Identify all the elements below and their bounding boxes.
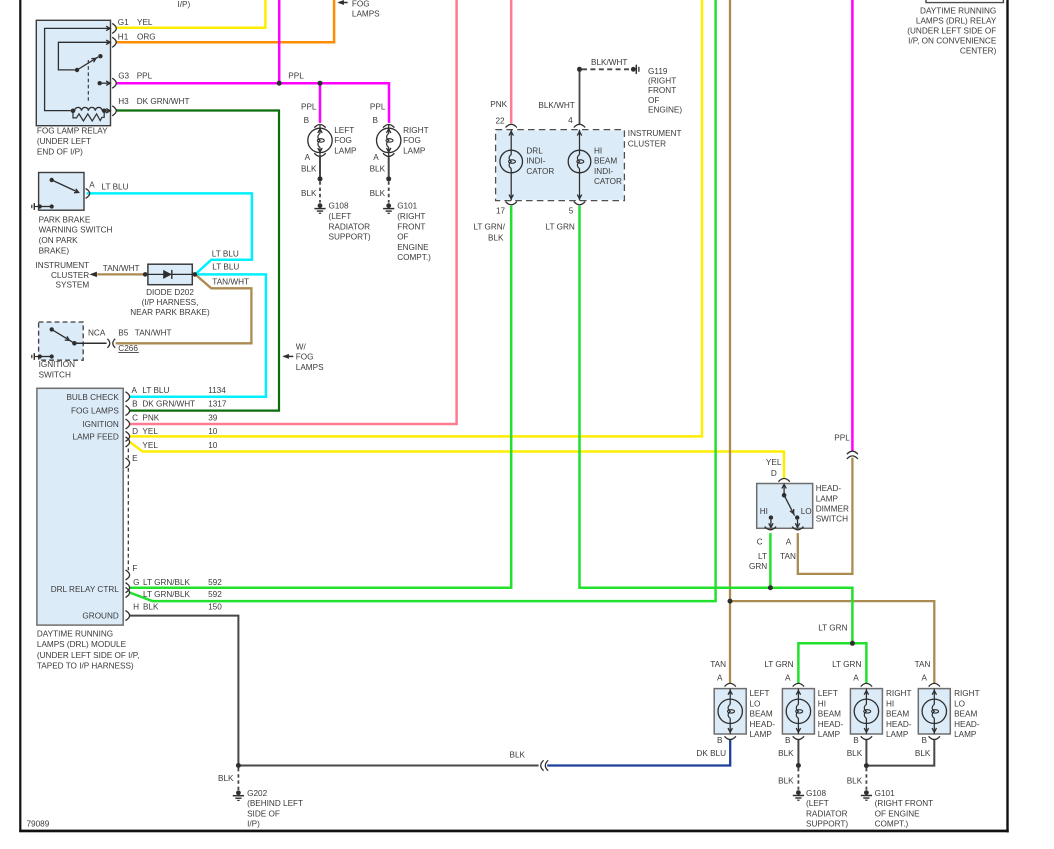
svg-text:BULB CHECK: BULB CHECK (66, 393, 119, 402)
svg-text:H1: H1 (118, 33, 129, 42)
svg-text:YEL: YEL (766, 458, 782, 467)
svg-text:DK GRN/WHT: DK GRN/WHT (142, 400, 195, 409)
svg-text:FOG LAMPS: FOG LAMPS (71, 407, 119, 416)
svg-text:A: A (373, 153, 379, 162)
svg-text:NCA: NCA (88, 329, 106, 338)
svg-text:(UNDER LEFT SIDE OF: (UNDER LEFT SIDE OF (907, 27, 996, 36)
svg-text:B: B (373, 116, 379, 125)
svg-text:LO: LO (801, 507, 812, 516)
svg-text:B: B (922, 736, 928, 745)
svg-text:OF: OF (397, 233, 408, 242)
svg-text:FOG: FOG (296, 353, 314, 362)
svg-text:ORG: ORG (137, 33, 156, 42)
svg-text:1134: 1134 (208, 386, 226, 395)
svg-text:TAN: TAN (710, 660, 726, 669)
svg-text:DIODE D202: DIODE D202 (146, 288, 194, 297)
svg-text:E: E (132, 454, 138, 463)
svg-text:BLK: BLK (510, 751, 526, 760)
svg-text:DAYTIME RUNNING: DAYTIME RUNNING (37, 630, 113, 639)
svg-text:LAMPS (DRL) RELAY: LAMPS (DRL) RELAY (916, 17, 997, 26)
svg-text:TAN/WHT: TAN/WHT (212, 278, 249, 287)
svg-text:DIMMER: DIMMER (816, 505, 849, 514)
svg-text:H: H (133, 602, 139, 611)
svg-text:H3: H3 (118, 97, 129, 106)
svg-text:INDI-: INDI- (526, 157, 545, 166)
svg-text:DAYTIME RUNNING: DAYTIME RUNNING (920, 7, 996, 16)
svg-text:RIGHT: RIGHT (886, 689, 911, 698)
svg-text:SIDE OF: SIDE OF (247, 809, 280, 818)
svg-text:HEAD-: HEAD- (886, 720, 912, 729)
svg-text:592: 592 (208, 590, 222, 599)
svg-text:LAMP: LAMP (750, 730, 773, 739)
svg-text:BLK: BLK (301, 189, 317, 198)
svg-text:TAN/WHT: TAN/WHT (135, 329, 172, 338)
svg-text:A: A (785, 674, 791, 683)
svg-text:PNK: PNK (490, 100, 507, 109)
svg-text:ENGINE): ENGINE) (648, 106, 682, 115)
svg-text:HI: HI (886, 699, 894, 708)
svg-text:FRONT: FRONT (397, 222, 425, 231)
svg-text:TAN/WHT: TAN/WHT (103, 264, 140, 273)
svg-text:NEAR PARK BRAKE): NEAR PARK BRAKE) (130, 308, 210, 317)
svg-text:HI: HI (818, 699, 826, 708)
svg-text:SUPPORT): SUPPORT) (806, 820, 848, 829)
svg-text:PPL: PPL (301, 103, 317, 112)
svg-text:LAMP: LAMP (403, 147, 426, 156)
svg-text:PPL: PPL (288, 71, 304, 80)
svg-text:D: D (132, 427, 138, 436)
svg-text:PNK: PNK (142, 414, 159, 423)
svg-text:LAMPS (DRL) MODULE: LAMPS (DRL) MODULE (37, 640, 127, 649)
svg-text:HI: HI (594, 147, 602, 156)
svg-text:(ON PARK: (ON PARK (39, 236, 79, 245)
svg-text:LAMP: LAMP (818, 730, 841, 739)
svg-text:IGNITION: IGNITION (82, 420, 118, 429)
svg-text:END OF I/P): END OF I/P) (37, 147, 83, 156)
svg-text:C: C (132, 414, 138, 423)
svg-text:C266: C266 (118, 344, 138, 353)
svg-text:5: 5 (569, 206, 574, 215)
svg-text:LT: LT (758, 552, 767, 561)
svg-text:17: 17 (496, 206, 506, 215)
svg-text:LO: LO (750, 699, 761, 708)
svg-text:LAMP: LAMP (954, 730, 977, 739)
svg-text:79089: 79089 (27, 819, 50, 828)
svg-text:D: D (771, 469, 777, 478)
svg-text:BEAM: BEAM (818, 710, 841, 719)
svg-text:10: 10 (208, 427, 218, 436)
svg-text:OF ENGINE: OF ENGINE (875, 809, 921, 818)
svg-text:GRN: GRN (749, 562, 767, 571)
svg-text:LT GRN/BLK: LT GRN/BLK (143, 578, 191, 587)
svg-text:BLK/WHT: BLK/WHT (538, 101, 574, 110)
svg-text:BLK: BLK (370, 189, 386, 198)
svg-text:DK GRN/WHT: DK GRN/WHT (137, 97, 190, 106)
svg-text:INSTRUMENT: INSTRUMENT (628, 129, 682, 138)
svg-text:FOG: FOG (403, 136, 421, 145)
svg-text:LAMP FEED: LAMP FEED (73, 433, 119, 442)
svg-text:LT GRN/BLK: LT GRN/BLK (143, 590, 191, 599)
svg-text:BLK/WHT: BLK/WHT (591, 58, 627, 67)
svg-text:BLK: BLK (218, 774, 234, 783)
svg-text:LT BLU: LT BLU (212, 249, 239, 258)
svg-text:(RIGHT: (RIGHT (648, 77, 676, 86)
svg-text:CLUSTER: CLUSTER (51, 271, 89, 280)
svg-text:HEAD-: HEAD- (816, 484, 842, 493)
svg-text:LT GRN: LT GRN (832, 660, 861, 669)
svg-text:B5: B5 (118, 329, 128, 338)
svg-text:150: 150 (208, 602, 222, 611)
svg-text:CATOR: CATOR (594, 177, 622, 186)
svg-text:INDI-: INDI- (594, 167, 613, 176)
svg-text:(RIGHT: (RIGHT (397, 212, 425, 221)
svg-text:B: B (304, 116, 310, 125)
svg-text:FOG LAMP RELAY: FOG LAMP RELAY (37, 127, 108, 136)
svg-text:TAPED TO I/P HARNESS): TAPED TO I/P HARNESS) (37, 662, 134, 671)
svg-text:(UNDER LEFT: (UNDER LEFT (37, 137, 91, 146)
svg-text:(RIGHT FRONT: (RIGHT FRONT (875, 799, 934, 808)
svg-text:BLK: BLK (778, 749, 794, 758)
svg-text:RADIATOR: RADIATOR (329, 222, 371, 231)
svg-text:I/P): I/P) (247, 820, 260, 829)
svg-text:BLK: BLK (847, 776, 863, 785)
svg-text:SWITCH: SWITCH (39, 371, 71, 380)
svg-text:PARK BRAKE: PARK BRAKE (39, 215, 91, 224)
svg-text:LT GRN/: LT GRN/ (473, 223, 505, 232)
svg-text:CATOR: CATOR (526, 167, 554, 176)
svg-text:G119: G119 (648, 67, 668, 76)
svg-text:A: A (717, 674, 723, 683)
svg-text:A: A (853, 674, 859, 683)
svg-text:BLK: BLK (847, 749, 863, 758)
svg-text:LAMP: LAMP (886, 730, 909, 739)
svg-text:B: B (717, 736, 723, 745)
svg-text:TAN: TAN (780, 552, 796, 561)
svg-text:LAMPS: LAMPS (352, 10, 380, 19)
svg-text:ENGINE: ENGINE (397, 243, 429, 252)
svg-text:10: 10 (208, 441, 218, 450)
svg-text:LO: LO (954, 699, 965, 708)
svg-text:592: 592 (208, 578, 222, 587)
svg-text:LEFT: LEFT (818, 689, 838, 698)
svg-text:22: 22 (496, 116, 506, 125)
svg-text:RADIATOR: RADIATOR (806, 809, 848, 818)
svg-text:G: G (133, 578, 139, 587)
svg-text:A: A (132, 386, 138, 395)
svg-text:INSTRUMENT: INSTRUMENT (36, 261, 90, 270)
svg-text:BRAKE): BRAKE) (39, 246, 70, 255)
svg-text:G108: G108 (329, 202, 349, 211)
svg-text:BEAM: BEAM (886, 710, 909, 719)
svg-text:G101: G101 (397, 202, 417, 211)
svg-text:W/: W/ (296, 342, 307, 351)
svg-text:(UNDER LEFT SIDE OF I/P,: (UNDER LEFT SIDE OF I/P, (37, 651, 140, 660)
svg-text:COMPT.): COMPT.) (875, 820, 909, 829)
svg-text:PPL: PPL (370, 103, 386, 112)
svg-text:OF: OF (648, 96, 659, 105)
svg-text:RIGHT: RIGHT (403, 126, 428, 135)
svg-text:LEFT: LEFT (334, 126, 354, 135)
svg-text:(I/P HARNESS,: (I/P HARNESS, (142, 298, 199, 307)
svg-text:BLK: BLK (488, 233, 504, 242)
svg-text:DRL: DRL (526, 147, 543, 156)
svg-text:LT GRN: LT GRN (764, 660, 793, 669)
svg-text:WARNING SWITCH: WARNING SWITCH (39, 226, 113, 235)
svg-text:C: C (757, 538, 763, 547)
svg-text:IGNITION: IGNITION (39, 360, 75, 369)
svg-text:B: B (132, 400, 138, 409)
svg-text:PPL: PPL (137, 71, 153, 80)
svg-text:I/P, ON CONVENIENCE: I/P, ON CONVENIENCE (908, 36, 997, 45)
svg-text:F: F (132, 564, 137, 573)
svg-text:39: 39 (208, 414, 218, 423)
svg-text:BLK: BLK (915, 749, 931, 758)
svg-text:B: B (785, 736, 791, 745)
svg-text:PPL: PPL (834, 434, 850, 443)
svg-text:CENTER): CENTER) (960, 46, 997, 55)
svg-text:(LEFT: (LEFT (806, 799, 829, 808)
svg-text:LT BLU: LT BLU (212, 263, 239, 272)
svg-text:BLK: BLK (301, 164, 317, 173)
svg-text:(LEFT: (LEFT (329, 212, 352, 221)
svg-text:(BEHIND LEFT: (BEHIND LEFT (247, 799, 303, 808)
svg-text:SYSTEM: SYSTEM (56, 281, 90, 290)
svg-text:1317: 1317 (208, 400, 227, 409)
svg-text:COMPT.): COMPT.) (397, 253, 431, 262)
svg-text:G1: G1 (118, 18, 129, 27)
svg-text:B: B (853, 736, 859, 745)
svg-text:BEAM: BEAM (594, 157, 617, 166)
svg-text:G3: G3 (118, 71, 129, 80)
svg-text:DK BLU: DK BLU (696, 749, 726, 758)
svg-text:DRL RELAY CTRL: DRL RELAY CTRL (51, 585, 120, 594)
svg-text:FOG: FOG (334, 136, 352, 145)
svg-text:LAMP: LAMP (816, 494, 839, 503)
svg-text:A: A (922, 674, 928, 683)
svg-text:HI: HI (760, 507, 768, 516)
svg-text:LAMP: LAMP (334, 147, 357, 156)
svg-text:SUPPORT): SUPPORT) (329, 233, 371, 242)
svg-text:YEL: YEL (142, 427, 158, 436)
svg-text:LT GRN: LT GRN (818, 623, 847, 632)
svg-text:I/P): I/P) (178, 0, 191, 9)
svg-text:HEAD-: HEAD- (818, 720, 844, 729)
svg-text:HEAD-: HEAD- (750, 720, 776, 729)
svg-text:BEAM: BEAM (954, 710, 977, 719)
svg-text:A: A (786, 538, 792, 547)
svg-text:RIGHT: RIGHT (954, 689, 979, 698)
svg-text:SWITCH: SWITCH (816, 515, 848, 524)
svg-text:LT GRN: LT GRN (546, 223, 575, 232)
svg-text:G108: G108 (806, 789, 826, 798)
svg-text:BLK: BLK (370, 164, 386, 173)
svg-text:LT BLU: LT BLU (102, 182, 129, 191)
svg-text:BEAM: BEAM (750, 710, 773, 719)
svg-text:A: A (305, 153, 311, 162)
svg-text:FRONT: FRONT (648, 86, 676, 95)
svg-text:LAMPS: LAMPS (296, 363, 324, 372)
svg-text:LT BLU: LT BLU (142, 386, 169, 395)
svg-text:HEAD-: HEAD- (954, 720, 980, 729)
svg-text:BLK: BLK (778, 776, 794, 785)
svg-text:CLUSTER: CLUSTER (628, 139, 666, 148)
svg-text:GROUND: GROUND (82, 612, 118, 621)
svg-text:BLK: BLK (143, 602, 159, 611)
svg-text:YEL: YEL (137, 18, 153, 27)
svg-text:G202: G202 (247, 789, 267, 798)
svg-text:4: 4 (568, 116, 573, 125)
svg-text:A: A (89, 181, 95, 190)
svg-text:LEFT: LEFT (750, 689, 770, 698)
svg-text:FOG: FOG (352, 0, 370, 8)
svg-text:YEL: YEL (142, 441, 158, 450)
svg-text:G101: G101 (875, 789, 895, 798)
svg-text:TAN: TAN (915, 660, 931, 669)
